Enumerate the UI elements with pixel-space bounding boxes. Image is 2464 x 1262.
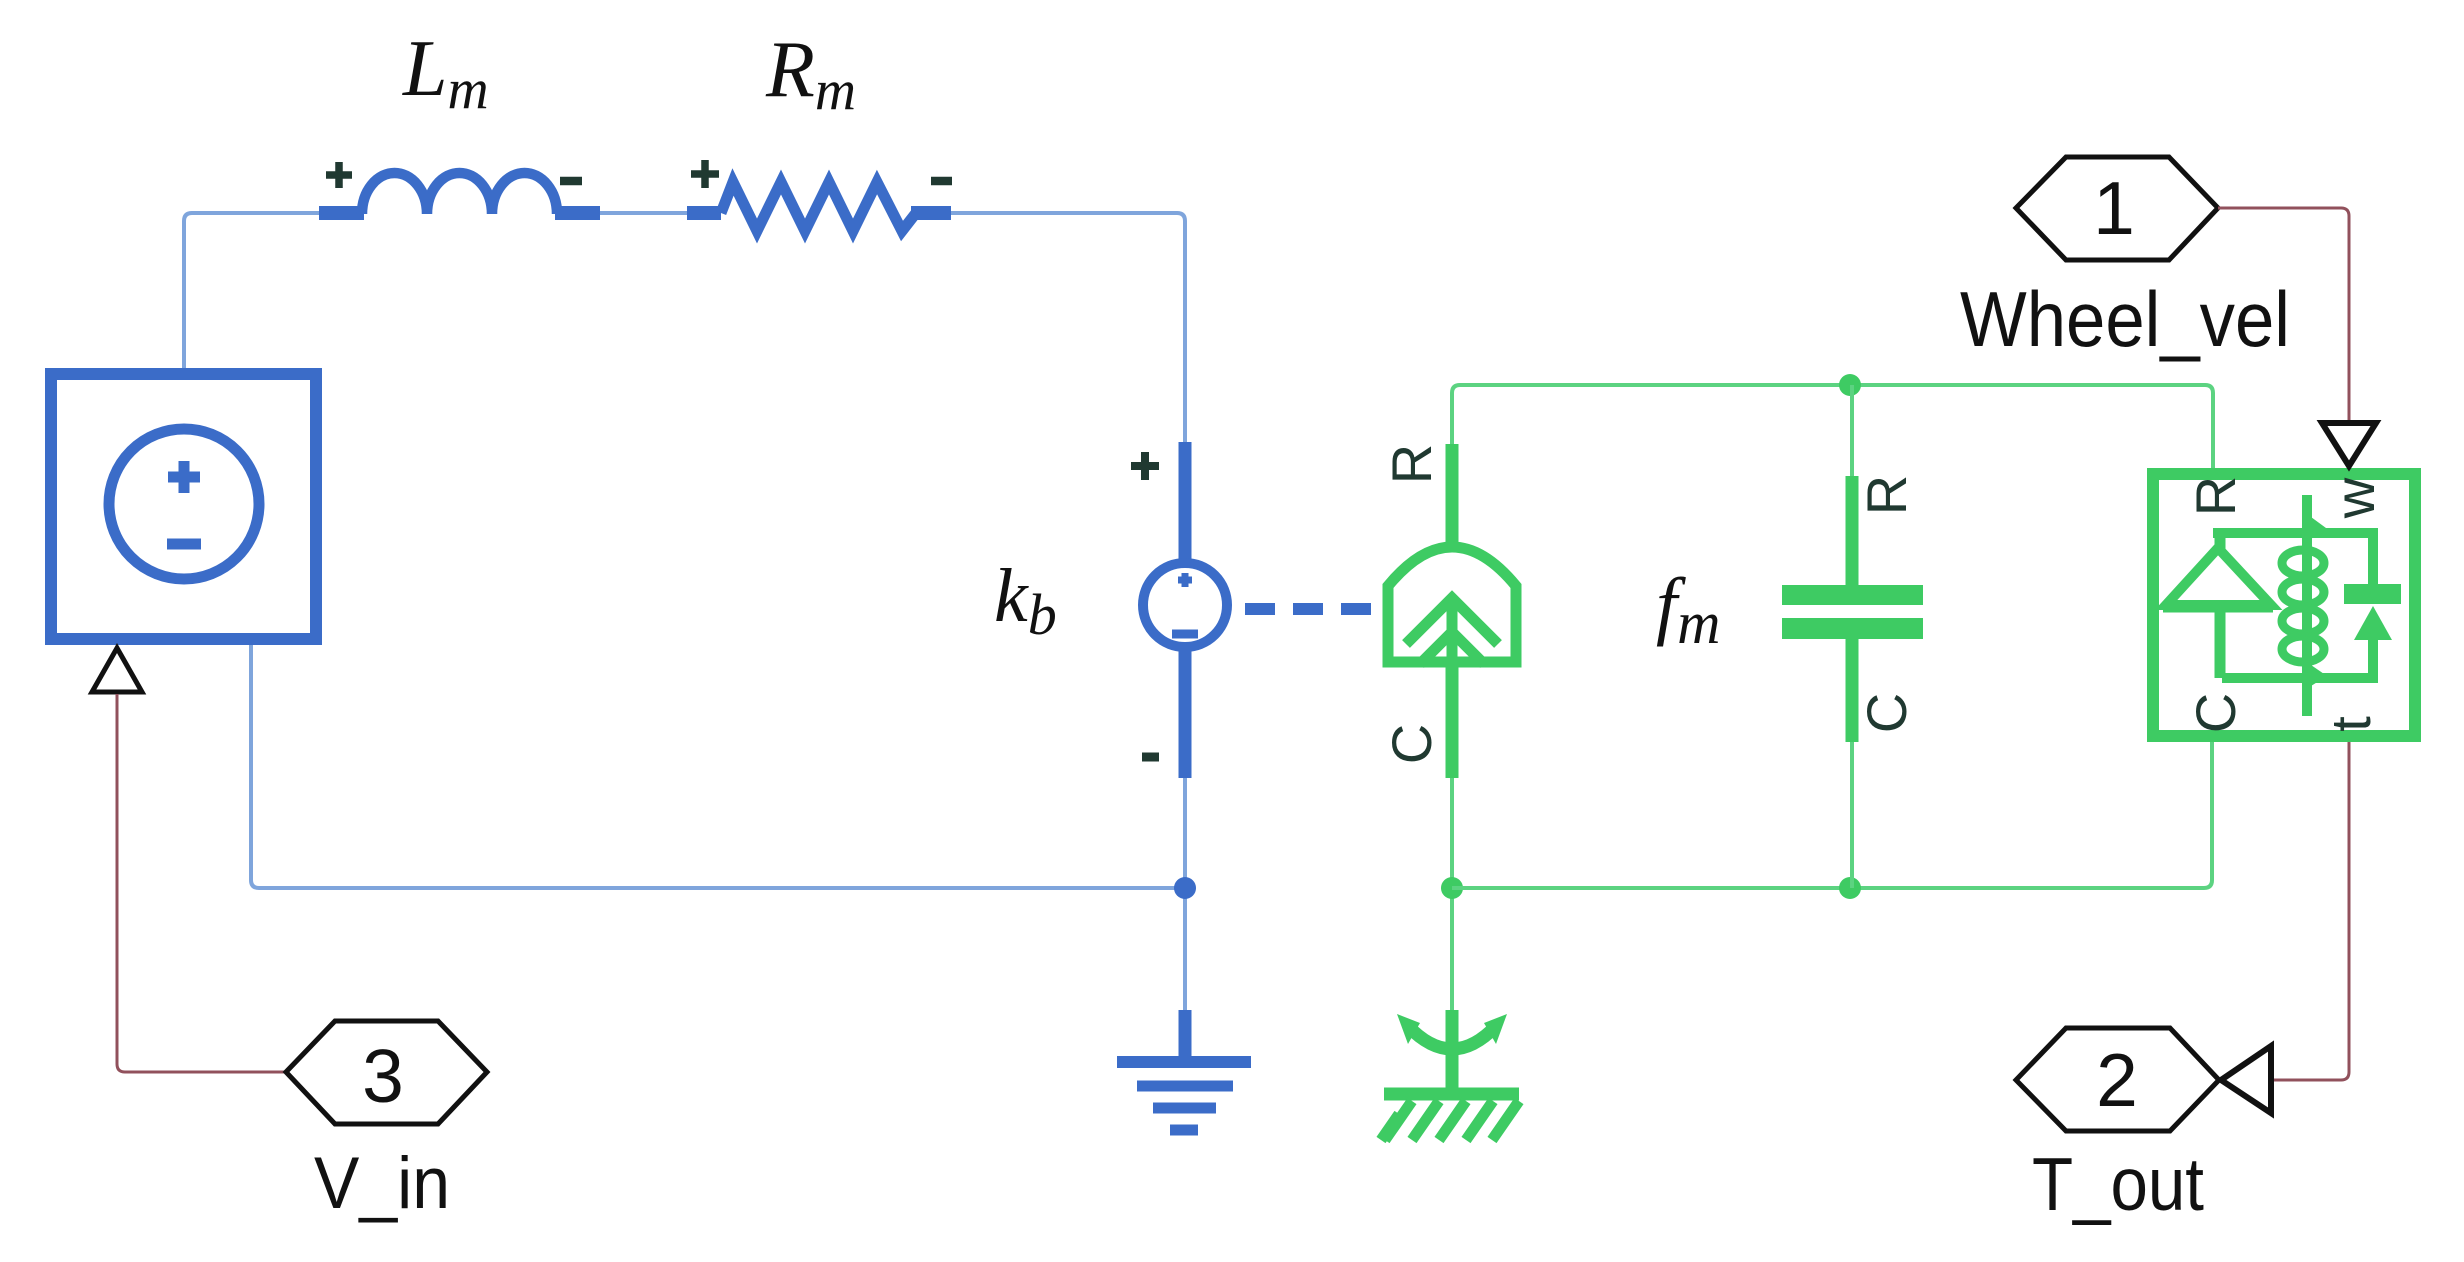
wire: torque source to mech ground (green thin) [1450, 778, 1454, 1010]
resistor Rm right terminal stub [911, 206, 951, 220]
inertia fm plate 1 [1782, 585, 1923, 605]
voltage source U1 minus [167, 539, 201, 550]
svg-text:w: w [2323, 477, 2386, 519]
controlled source kb inner minus [1172, 630, 1198, 639]
node junction green top [1839, 374, 1861, 396]
inertia fm plate 2 [1782, 618, 1923, 639]
sensor U2 spring coil [2282, 550, 2324, 576]
node junction green bottom mid [1839, 877, 1861, 899]
voltage source U1 circle [109, 429, 259, 579]
ground G1 bars [1117, 1056, 1251, 1068]
sensor U2 central shaft [2302, 495, 2312, 716]
torque source S1 top stub [1446, 444, 1459, 553]
voltage source U1 plus [168, 461, 200, 493]
controlled source kb circle [1143, 563, 1227, 647]
sensor U2 left stem [2215, 533, 2226, 678]
wire: resistor to controlled source kb (blue thin) [951, 213, 1185, 442]
sensor U2 inner bottom line [2222, 673, 2378, 683]
rotational motion sensor U2 box [2153, 474, 2415, 736]
sensor U2 right stem [2368, 538, 2378, 584]
wire: fm bottom dropper [1850, 742, 1854, 888]
wire: port 1 to sensor w (maroon) [2218, 208, 2349, 421]
sensor U2 shaft arrow bottom [2311, 665, 2327, 686]
sensor U2 inner top line [2213, 528, 2378, 538]
controlled source kb top stub [1179, 442, 1192, 562]
controlled source kb inner plus [1178, 573, 1192, 587]
voltage source U1 box [51, 374, 316, 639]
inductor Lm + pin label [326, 162, 352, 188]
torque source S1 body [1388, 547, 1516, 662]
torque source S1 bottom stub [1446, 662, 1459, 778]
wire: voltage source bottom return (blue thin) [251, 645, 1185, 888]
sensor U2 shaft arrow top [2311, 517, 2326, 539]
svg-text:C: C [2184, 693, 2247, 733]
mechanical rotational reference G2 wings [1408, 1026, 1496, 1049]
wire: kb bottom to ground node (blue thin) [1183, 778, 1187, 1010]
mechanical rotational reference G2 hatches [1381, 1101, 1519, 1140]
node junction green bottom left [1441, 877, 1463, 899]
resistor Rm zigzag [721, 182, 916, 231]
inertia fm bottom stub [1846, 639, 1859, 742]
wire: green dropper to fm [1850, 385, 1854, 476]
sensor U2 triangle base bar [2163, 602, 2273, 613]
resistor Rm + pin label [691, 160, 719, 188]
dashed control line kb to torque source [1245, 603, 1377, 615]
node junction blue [1174, 877, 1196, 899]
wire: voltage source top to inductor (blue thin) [184, 213, 319, 368]
torque source S1 arrow [1447, 604, 1458, 662]
output arrow into port 2 [2221, 1046, 2271, 1113]
sensor U2 triangle [2166, 548, 2271, 605]
green bus top: torque source to sensor R port [1452, 385, 2213, 468]
ground G1 stub [1179, 1010, 1192, 1062]
svg-text:R: R [1855, 475, 1918, 515]
hexagon port 1 [2016, 157, 2218, 260]
hexagon port 3 [286, 1021, 487, 1124]
svg-text:R: R [2184, 476, 2247, 516]
svg-text:Wheel_vel: Wheel_vel [1960, 275, 2290, 363]
output arrow into sensor w [2322, 423, 2376, 466]
resistor Rm left terminal stub [687, 206, 721, 220]
svg-text:R: R [1380, 444, 1443, 484]
inductor Lm left terminal stub [319, 206, 364, 220]
inductor Lm coil [362, 173, 557, 214]
green bus bottom [1452, 742, 2212, 888]
inductor Lm - pin label [560, 177, 582, 186]
inductor Lm right terminal stub [555, 206, 600, 220]
svg-text:1: 1 [2093, 166, 2135, 250]
wire: inductor to resistor (blue thin) [600, 211, 687, 215]
sensor U2 right up arrow [2354, 606, 2392, 640]
mechanical rotational reference G2 stem [1446, 1010, 1459, 1094]
controlled source kb bottom stub [1179, 648, 1192, 778]
hexagon port 2 [2016, 1028, 2219, 1131]
svg-text:V_in: V_in [314, 1143, 450, 1224]
svg-text:C: C [1380, 724, 1443, 764]
input port arrow under voltage source [92, 648, 142, 692]
svg-text:t: t [2319, 716, 2382, 732]
svg-text:2: 2 [2096, 1038, 2138, 1122]
controlled source kb + pin label [1131, 452, 1159, 480]
resistor Rm - pin label [931, 177, 952, 186]
sensor U2 right bar [2344, 584, 2401, 604]
wire: V_in port to arrow (maroon) [117, 694, 286, 1072]
svg-text:T_out: T_out [2032, 1142, 2204, 1226]
controlled source kb - pin label [1142, 753, 1159, 762]
wire: sensor t to port 2 (maroon) [2273, 742, 2349, 1080]
svg-text:3: 3 [362, 1034, 404, 1118]
mechanical rotational reference G2 bar [1384, 1088, 1519, 1101]
svg-text:C: C [1855, 693, 1918, 733]
inertia fm top stub [1846, 476, 1859, 588]
